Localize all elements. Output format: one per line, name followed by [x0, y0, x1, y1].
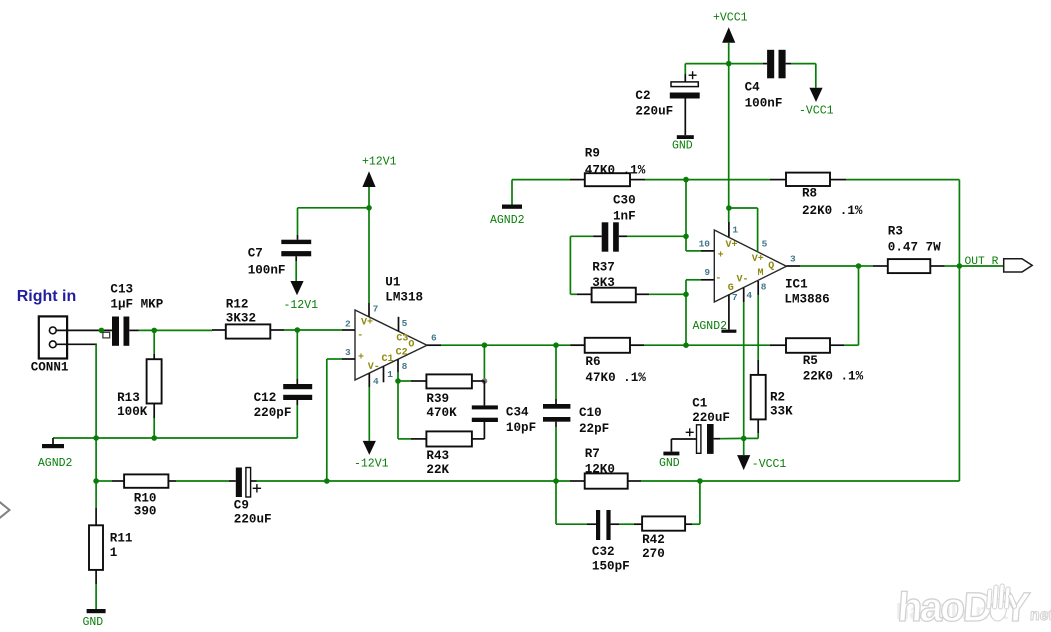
svg-text:4: 4: [373, 376, 379, 387]
svg-text:R9: R9: [585, 147, 600, 161]
svg-text:-VCC1: -VCC1: [799, 105, 834, 118]
svg-text:1nF: 1nF: [613, 209, 636, 223]
svg-text:R2: R2: [770, 391, 785, 405]
svg-text:1: 1: [387, 369, 393, 380]
svg-text:haoD: haoD: [896, 584, 993, 630]
svg-text:C34: C34: [506, 406, 529, 420]
svg-text:12K0: 12K0: [585, 463, 615, 477]
svg-text:-: -: [715, 273, 721, 284]
svg-text:CONN1: CONN1: [31, 361, 69, 375]
svg-text:GND: GND: [672, 140, 693, 153]
svg-text:33K: 33K: [770, 405, 793, 419]
svg-text:O: O: [408, 340, 414, 351]
svg-text:Q: Q: [768, 261, 774, 272]
svg-text:220uF: 220uF: [692, 411, 730, 425]
svg-text:220pF: 220pF: [254, 406, 292, 420]
svg-text:3K3: 3K3: [592, 276, 615, 290]
svg-text:-VCC1: -VCC1: [752, 458, 787, 471]
svg-text:1: 1: [110, 546, 118, 560]
svg-text:LM3886: LM3886: [784, 293, 829, 307]
svg-text:3: 3: [790, 254, 796, 265]
svg-text:22pF: 22pF: [579, 422, 609, 436]
svg-text:V+: V+: [752, 254, 764, 265]
svg-text:+12V1: +12V1: [362, 156, 397, 169]
svg-text:AGND2: AGND2: [693, 320, 728, 333]
svg-text:IC1: IC1: [785, 278, 808, 292]
svg-text:220uF: 220uF: [234, 513, 272, 527]
svg-text:R11: R11: [110, 532, 133, 546]
svg-text:22K: 22K: [426, 463, 449, 477]
svg-text:220uF: 220uF: [635, 105, 673, 119]
svg-text:1: 1: [732, 225, 738, 236]
svg-text:C9: C9: [234, 499, 249, 513]
svg-text:1µF MKP: 1µF MKP: [110, 298, 163, 312]
svg-text:3: 3: [345, 347, 351, 358]
svg-text:9: 9: [704, 267, 710, 278]
svg-text:22K0 .1%: 22K0 .1%: [802, 204, 863, 218]
svg-text:R43: R43: [426, 449, 449, 463]
svg-text:R37: R37: [592, 261, 615, 275]
svg-text:R39: R39: [426, 392, 449, 406]
svg-text:150pF: 150pF: [592, 560, 630, 574]
svg-text:-: -: [357, 330, 363, 341]
svg-text:C1: C1: [382, 354, 394, 365]
svg-text:R5: R5: [803, 354, 818, 368]
svg-text:GND: GND: [83, 616, 104, 629]
svg-text:net: net: [1029, 607, 1051, 624]
svg-text:100K: 100K: [117, 405, 148, 419]
svg-text:C30: C30: [613, 193, 636, 207]
svg-text:LM318: LM318: [385, 291, 423, 305]
svg-text:47K0 .1%: 47K0 .1%: [585, 371, 646, 385]
svg-text:U1: U1: [385, 276, 401, 290]
svg-text:8: 8: [761, 281, 767, 292]
svg-text:100nF: 100nF: [248, 264, 286, 278]
svg-text:V+: V+: [726, 240, 738, 251]
svg-text:5: 5: [762, 239, 768, 250]
svg-text:M: M: [758, 268, 764, 279]
svg-text:0.47 7W: 0.47 7W: [888, 241, 941, 255]
svg-text:AGND2: AGND2: [38, 457, 73, 470]
svg-text:V-: V-: [368, 362, 380, 373]
svg-text:8: 8: [402, 361, 408, 372]
svg-text:C1: C1: [692, 397, 708, 411]
svg-text:6: 6: [431, 333, 437, 344]
svg-text:470K: 470K: [426, 406, 457, 420]
svg-text:2: 2: [345, 319, 351, 330]
svg-text:R3: R3: [888, 225, 903, 239]
svg-text:3K32: 3K32: [226, 312, 256, 326]
svg-text:10pF: 10pF: [506, 421, 536, 435]
svg-text:4: 4: [746, 290, 752, 301]
svg-text:R42: R42: [642, 533, 665, 547]
svg-text:C7: C7: [248, 247, 263, 261]
svg-text:V+: V+: [361, 317, 373, 328]
svg-text:V-: V-: [737, 275, 749, 286]
svg-text:C12: C12: [254, 391, 277, 405]
svg-text:GND: GND: [659, 457, 680, 470]
svg-text:R8: R8: [802, 187, 817, 201]
svg-text:390: 390: [134, 505, 157, 519]
svg-text:R7: R7: [585, 447, 600, 461]
svg-text:C4: C4: [745, 81, 761, 95]
svg-text:R12: R12: [226, 298, 249, 312]
svg-text:R6: R6: [585, 355, 600, 369]
svg-text:Right in: Right in: [17, 288, 77, 305]
svg-text:47K0 .1%: 47K0 .1%: [585, 164, 646, 178]
svg-text:OUT R: OUT R: [965, 256, 999, 268]
svg-text:5: 5: [402, 318, 408, 329]
svg-text:G: G: [728, 283, 734, 294]
svg-text:C32: C32: [592, 545, 615, 559]
svg-text:R13: R13: [117, 391, 140, 405]
svg-text:AGND2: AGND2: [490, 214, 525, 227]
svg-text:+: +: [358, 353, 364, 364]
svg-text:-12V1: -12V1: [284, 299, 319, 312]
svg-text:C2: C2: [396, 347, 408, 358]
svg-text:-12V1: -12V1: [354, 458, 389, 471]
svg-text:R10: R10: [134, 492, 157, 506]
svg-text:22K0 .1%: 22K0 .1%: [803, 370, 864, 384]
svg-text:C2: C2: [635, 89, 650, 103]
svg-text:10: 10: [699, 239, 711, 250]
svg-text:270: 270: [642, 547, 665, 561]
svg-text:C13: C13: [110, 283, 133, 297]
svg-text:+: +: [718, 251, 724, 262]
svg-text:7: 7: [373, 304, 379, 315]
svg-text:100nF: 100nF: [745, 97, 783, 111]
svg-text:C3: C3: [396, 333, 408, 344]
svg-text:+VCC1: +VCC1: [713, 12, 748, 25]
svg-text:C10: C10: [579, 406, 602, 420]
